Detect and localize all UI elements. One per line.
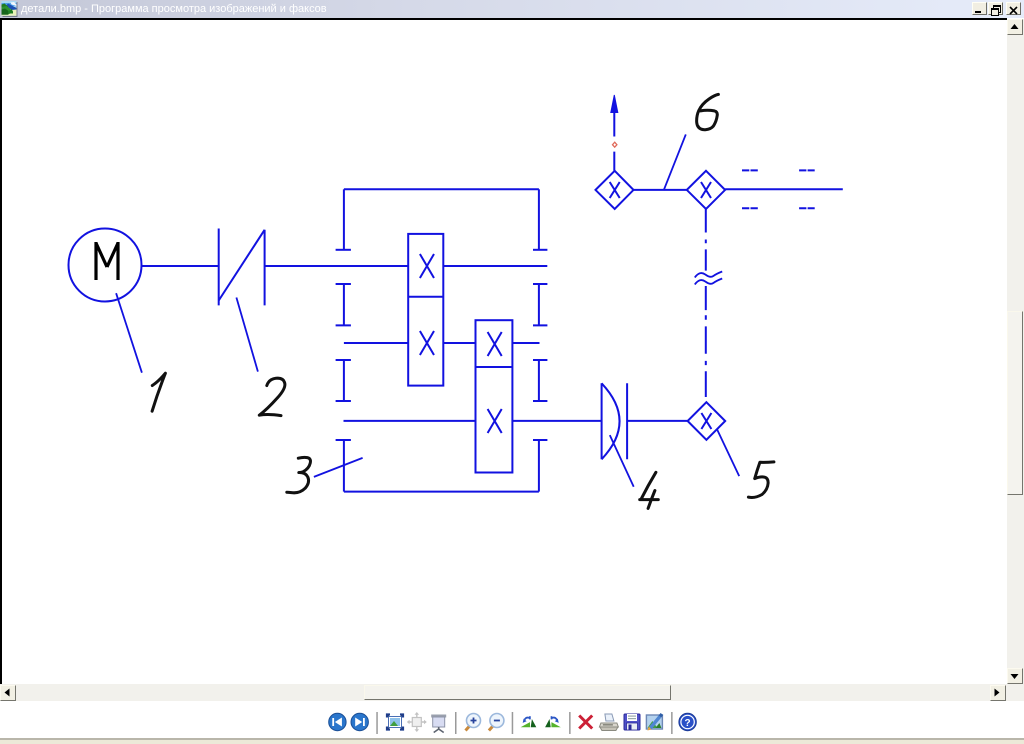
leader line 6	[664, 134, 686, 189]
bearing cap left top	[336, 249, 351, 251]
horizontal scrollbar	[0, 684, 1007, 701]
red reference point	[613, 142, 617, 147]
vsb thumb	[1007, 311, 1023, 495]
bearing right between shaft II and III	[533, 360, 547, 401]
handwheel vertical	[601, 383, 603, 459]
hsb left button	[0, 685, 16, 701]
rotate clockwise button	[545, 716, 561, 727]
label digit 5	[748, 462, 774, 498]
previous image button	[329, 713, 346, 730]
help button	[679, 713, 696, 730]
toolbar separator 3	[512, 712, 514, 734]
gearbox housing top line	[344, 188, 539, 190]
label digit 1	[152, 373, 165, 411]
scrollbar corner	[1007, 684, 1024, 701]
print button	[599, 714, 618, 731]
leader line 3	[314, 458, 363, 477]
toolbar strip	[0, 701, 1024, 738]
nut dash upper 2	[799, 169, 815, 171]
leader line 4	[610, 435, 634, 487]
gear block 2 outline	[476, 320, 513, 472]
housing right upper wall	[538, 189, 540, 249]
gearbox housing bottom line	[344, 491, 539, 493]
link between upper diamonds	[634, 189, 687, 191]
input shaft I line	[443, 265, 547, 267]
vsb up button	[1007, 19, 1023, 35]
dash-dot screw axis	[705, 209, 707, 397]
shaft II between gear blocks	[443, 342, 475, 344]
motor M	[69, 229, 142, 302]
gear 1 X mark	[420, 254, 434, 278]
label digit 2	[259, 378, 285, 415]
label digit 4	[640, 472, 659, 508]
actual size button (disabled)	[407, 712, 427, 732]
lead screw line	[725, 188, 843, 190]
screw support bearing upper right (diamond)	[687, 171, 725, 209]
toolbar separator 2	[455, 712, 457, 734]
gear 3 X mark	[488, 332, 502, 356]
X in upper right diamond	[701, 182, 711, 198]
save button	[624, 714, 640, 730]
zoom in button	[466, 714, 481, 731]
nut dash upper 1	[742, 169, 758, 171]
gear 4 X mark	[488, 409, 502, 433]
title bar	[0, 0, 1024, 18]
black border top of canvas	[0, 18, 1007, 20]
toolbar separator 4	[569, 712, 571, 734]
screw support bearing upper left (diamond)	[596, 171, 634, 209]
direction line above arrow	[613, 112, 615, 171]
gear block 1 outline	[408, 234, 443, 386]
close button	[1006, 2, 1021, 15]
label digit 6	[697, 94, 719, 129]
housing left upper wall	[343, 189, 345, 249]
hsb thumb	[364, 685, 671, 700]
X in upper left diamond	[610, 182, 620, 198]
zoom out button	[489, 714, 504, 731]
nut dash lower 1	[742, 207, 758, 209]
shaft belt drive to gearbox input	[265, 265, 409, 267]
svg-text:?: ?	[685, 718, 691, 729]
next image button	[351, 713, 368, 730]
output shaft III left segment	[344, 420, 476, 422]
slideshow button	[431, 715, 446, 733]
shaft II left segment	[344, 342, 408, 344]
break wave lower	[695, 279, 722, 285]
bearing cap right top	[533, 249, 547, 251]
direction arrow head	[611, 95, 618, 113]
bearing left between shaft II and III	[336, 360, 351, 401]
toolbar separator 1	[376, 712, 378, 734]
housing left lower wall	[343, 440, 345, 492]
minimize button	[972, 2, 987, 15]
bottom cream strip	[0, 738, 1024, 740]
X in diamond 5	[701, 413, 711, 429]
best fit button	[387, 715, 403, 730]
leader line 1	[116, 293, 142, 373]
black border left of canvas	[0, 18, 2, 684]
screw support bearing 5 (diamond)	[688, 402, 726, 440]
vertical scrollbar	[1007, 19, 1024, 684]
label digit 3	[287, 457, 311, 492]
shaft II right segment	[512, 342, 539, 344]
handwheel hub line	[626, 383, 628, 459]
shaft handwheel to screw support	[627, 420, 688, 422]
app icon	[0, 0, 18, 18]
rotate counterclockwise button	[521, 716, 537, 727]
gear 2 X mark	[420, 331, 434, 355]
bearing cap left bottom	[336, 439, 351, 441]
belt drive pulley right	[264, 230, 266, 306]
housing right lower wall	[538, 440, 540, 492]
bearing cap right bottom	[533, 439, 547, 441]
delete button	[579, 716, 592, 729]
gear block 1 divider	[408, 296, 443, 298]
edit button	[646, 714, 662, 731]
title text	[21, 3, 327, 15]
shaft III out of housing	[512, 420, 601, 422]
bearing right between shaft I and II	[533, 284, 547, 325]
shaft motor to belt drive	[142, 265, 219, 267]
leader line 5	[717, 429, 739, 476]
toolbar separator 5	[671, 712, 673, 734]
gear block 2 divider	[476, 366, 513, 368]
hsb right button	[990, 685, 1006, 701]
handwheel arc	[602, 383, 620, 459]
break wave upper	[695, 272, 722, 278]
nut dash lower 2	[799, 207, 815, 209]
leader line 2	[236, 298, 258, 372]
restore button	[988, 2, 1003, 15]
motor letter M	[96, 242, 118, 280]
bearing left between shaft I and II	[336, 284, 351, 325]
vsb down button	[1007, 668, 1023, 684]
belt drive pulley left	[218, 229, 220, 306]
belt line	[219, 230, 265, 301]
